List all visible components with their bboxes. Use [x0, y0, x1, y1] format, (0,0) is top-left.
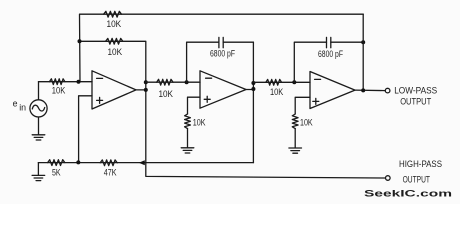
svg-text:10K: 10K — [300, 117, 313, 127]
junction divider node to U1 non-inverting input — [76, 160, 80, 164]
ground U2 — [181, 148, 194, 153]
ground of e_in source — [32, 135, 45, 140]
capacitor C2 6800 pF feedback row — [294, 42, 326, 82]
junction U1 output apex — [144, 88, 148, 92]
junction stage-3 capacitor tap — [292, 80, 296, 84]
resistor 10K U2 to ground — [185, 114, 191, 129]
svg-text:10K: 10K — [107, 19, 122, 29]
terminal low-pass output — [385, 88, 390, 93]
svg-text:6800 pF: 6800 pF — [318, 49, 343, 59]
op-amp U3 — [310, 72, 355, 109]
svg-text:OUTPUT: OUTPUT — [403, 175, 431, 185]
terminal high-pass output — [386, 176, 391, 181]
wire stage-2 row to U2 inverting input — [146, 81, 200, 83]
capacitor C1 6800 pF feedback row — [187, 42, 219, 82]
junction U2 output apex — [251, 87, 255, 91]
svg-text:10K: 10K — [108, 47, 123, 57]
resistor 10K stage-3 input — [266, 79, 282, 85]
AC source bottom wire — [38, 117, 40, 134]
wire U3 apex to low-pass terminal — [355, 89, 385, 92]
AC source sine symbol — [32, 105, 44, 111]
junction U3 output — [361, 88, 365, 92]
svg-text:e: e — [13, 99, 18, 109]
wire stage-3 row to U3 inverting input — [253, 81, 310, 83]
ground U3 — [289, 148, 302, 153]
wire U2 apex to output column — [246, 89, 253, 91]
svg-text:HIGH-PASS: HIGH-PASS — [399, 159, 442, 169]
wire U3 non-inverting input to ground resistor — [295, 97, 310, 114]
svg-text:in: in — [19, 103, 26, 113]
svg-text:47K: 47K — [104, 167, 117, 177]
wire resistor to ground U2 — [187, 129, 189, 148]
resistor 10K U1 feedback (row 2) — [106, 38, 123, 44]
junction U2 output at stage-3 row — [251, 81, 255, 85]
resistor 10K input — [49, 79, 65, 85]
wire U2 output column: capacitor row down to band-pass feedback row — [252, 42, 254, 162]
junction top feedback joins C2 column — [361, 40, 365, 44]
wire U1 output column down to high-pass output wire — [146, 82, 386, 178]
junction node A at U1 inverting input — [77, 80, 81, 84]
svg-text:10K: 10K — [270, 87, 283, 97]
wire divider row: ground, 5K, node, 47K to U2 output column — [38, 162, 253, 164]
resistor 10K top feedback — [104, 11, 122, 17]
resistor 10K stage-2 input — [157, 79, 174, 85]
wire U3 output column from top wire down — [362, 14, 364, 90]
AC source e_in circle — [30, 100, 47, 117]
wire U2 non-inverting input to ground resistor — [188, 97, 201, 114]
svg-text:6800 pF: 6800 pF — [210, 48, 235, 58]
wire input row e_in to U1 inverting input — [39, 81, 93, 83]
junction node A upper (feedback row tap) — [78, 39, 82, 43]
op-amp U2 — [200, 71, 246, 108]
AC source e_in: top wire — [38, 82, 40, 100]
wire top feedback from node A to low-pass output column — [80, 14, 364, 82]
op-amp U1 — [92, 71, 136, 109]
wire U1 feedback row from node A down to U1 output — [80, 41, 146, 82]
wire resistor to ground U3 — [294, 129, 296, 148]
resistor 47K — [100, 160, 117, 166]
wire U1 output to high-pass row — [136, 89, 146, 91]
resistor 10K U3 to ground — [292, 114, 298, 129]
svg-text:5K: 5K — [52, 167, 61, 177]
svg-text:10K: 10K — [193, 118, 206, 128]
svg-text:SeekIC.com: SeekIC.com — [364, 189, 452, 199]
wire U1 non-inverting input down to divider node — [79, 96, 92, 163]
svg-text:10K: 10K — [52, 85, 66, 95]
junction U1 output at stage-2 row — [144, 80, 148, 84]
resistor 5K — [48, 160, 65, 166]
junction stage-2 capacitor tap — [185, 80, 189, 84]
svg-text:LOW-PASS: LOW-PASS — [394, 86, 437, 96]
svg-text:OUTPUT: OUTPUT — [400, 97, 432, 107]
svg-text:10K: 10K — [159, 89, 174, 99]
junction blob where band-pass row meets U1 output column — [139, 160, 145, 165]
wire divider left leg down — [37, 163, 39, 175]
ground of divider — [32, 175, 45, 180]
